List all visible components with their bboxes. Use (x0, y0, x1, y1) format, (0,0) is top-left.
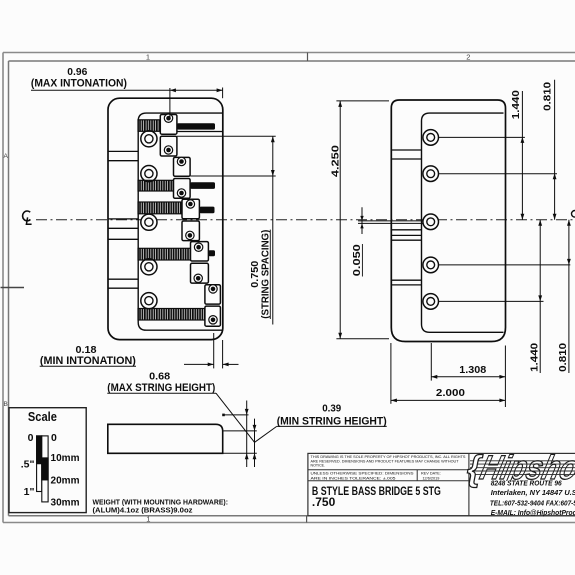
mounting hole L5 (141, 293, 157, 309)
saddle row 5 upper block (205, 285, 221, 304)
svg-text:.5": .5" (21, 458, 35, 470)
min string height level line (224, 430, 257, 432)
intonation spring row 4 (138, 248, 191, 260)
svg-text:4.250: 4.250 (330, 145, 342, 177)
svg-text:30mm: 30mm (51, 497, 80, 509)
svg-text:Scale: Scale (28, 409, 57, 424)
saddle row 2 upper block (174, 157, 191, 176)
svg-text:UNLESS OTHERWISE SPECIFIED: DI: UNLESS OTHERWISE SPECIFIED: DIMENSIONS (311, 472, 415, 476)
plate bottom extension line (224, 452, 257, 454)
max string height level line (223, 414, 249, 416)
svg-text:ARE IN INCHES TOLERANCE: ±.00: ARE IN INCHES TOLERANCE: ±.005 (311, 476, 396, 480)
bridge top view: base plate outline (108, 98, 223, 339)
saddle row 3 lower block (182, 221, 199, 241)
intonation screw row 2 (190, 182, 215, 189)
saddle row 3 upper block (182, 199, 199, 219)
svg-text:20mm: 20mm (51, 475, 80, 487)
svg-text:0.810: 0.810 (557, 343, 569, 372)
svg-text:1.440: 1.440 (510, 90, 522, 119)
rear view plate outline (391, 100, 505, 342)
svg-text:12/6/2019: 12/6/2019 (422, 476, 439, 480)
sheet outer border (3, 52, 575, 54)
mounting hole R2 (423, 166, 439, 182)
svg-text:1.308: 1.308 (459, 364, 486, 376)
dim 0.810 upper (554, 80, 556, 220)
dim 1.440 lower (539, 220, 541, 373)
saddle row 3 height screws (186, 200, 194, 208)
svg-text:0: 0 (51, 432, 57, 444)
zone tick top (307, 53, 309, 62)
inch scale bar (37, 436, 42, 492)
mounting hole L3 (141, 214, 157, 230)
mounting hole R5 (423, 294, 439, 310)
svg-text:1: 1 (146, 53, 150, 62)
svg-text:(MIN STRING HEIGHT): (MIN STRING HEIGHT) (277, 415, 387, 427)
dim 1.440 upper (521, 91, 523, 220)
hole R1 extension line (439, 136, 525, 138)
dim 0.810 lower (568, 220, 570, 373)
top view: left edge step lines (108, 150, 138, 152)
dim 1.308 (430, 343, 432, 381)
intonation screw row 1 (177, 123, 215, 129)
svg-text:E-MAIL: Info@HipshotProd: E-MAIL: Info@HipshotProd (491, 508, 575, 517)
mounting hole R1 (423, 130, 439, 146)
saddle row 4 height screws (194, 243, 202, 251)
side view base plate (108, 424, 223, 453)
svg-text:0.810: 0.810 (542, 82, 554, 111)
horizontal centerline (36, 219, 575, 221)
intonation spring row 1 (138, 120, 160, 132)
rear view inner contour (422, 113, 504, 332)
Hipshot logo (470, 450, 575, 487)
saddle row 1 upper block (160, 115, 177, 135)
svg-text:0.39: 0.39 (322, 403, 341, 415)
svg-text:NOTICE.: NOTICE. (311, 464, 326, 468)
svg-text:0.96: 0.96 (67, 66, 87, 78)
dim 4.250 (336, 100, 389, 102)
scale legend box (9, 408, 86, 513)
zone tick left (1, 287, 25, 289)
intonation screw row 4 (208, 250, 215, 256)
0.050 step lines (358, 220, 423, 222)
svg-text:(MAX STRING HEIGHT): (MAX STRING HEIGHT) (107, 382, 215, 394)
centerline symbol clipped right edge (572, 211, 575, 218)
svg-text:0: 0 (28, 432, 34, 444)
svg-text:2.000: 2.000 (436, 387, 465, 399)
svg-text:Interlaken, NY 14847 U.S: Interlaken, NY 14847 U.S (491, 488, 575, 497)
saddle row 2 height screws (177, 157, 185, 165)
svg-text:(STRING SPACING): (STRING SPACING) (260, 230, 272, 319)
saddle row 5 lower block (205, 306, 221, 326)
rear view left edge step lines (391, 149, 421, 151)
intonation screw row 3 (199, 207, 214, 214)
svg-text:(MAX INTONATION): (MAX INTONATION) (31, 78, 127, 90)
svg-text:.750: .750 (312, 495, 336, 509)
saddle row 5 height screws (209, 285, 217, 293)
mounting hole L2 (141, 166, 157, 182)
top view: raised tail section inner contour (138, 113, 223, 330)
intonation spring row 2 (138, 180, 174, 191)
top view: step line behind saddle row 1 (177, 131, 223, 133)
saddle row 1 height screws (164, 114, 172, 122)
svg-text:(ALUM)4.1oz (BRASS)9.0oz: (ALUM)4.1oz (BRASS)9.0oz (93, 505, 193, 514)
mounting hole L1 (141, 131, 157, 147)
dim 2.000 (390, 343, 392, 404)
svg-text:1": 1" (24, 486, 35, 498)
centerline symbol CL left (23, 211, 32, 224)
mounting hole R4 (423, 257, 439, 273)
dim 0.750 STRING SPACING (177, 135, 276, 137)
mounting hole L4 (141, 259, 157, 275)
saddle row 2 lower block (174, 179, 191, 199)
svg-text:2: 2 (466, 53, 470, 62)
svg-text:10mm: 10mm (51, 452, 80, 464)
svg-text:REV DATE:: REV DATE: (421, 472, 441, 476)
svg-text:8248 STATE ROUTE 96: 8248 STATE ROUTE 96 (491, 479, 563, 488)
saddle row 4 upper block (191, 242, 209, 261)
svg-text:0.050: 0.050 (351, 244, 363, 276)
saddle row 1 lower block (160, 136, 177, 156)
zone tick bottom (306, 516, 308, 523)
svg-text:0.18: 0.18 (76, 344, 97, 356)
svg-text:0.68: 0.68 (149, 371, 170, 383)
svg-text:TEL:607-532-9404 FAX:607-5: TEL:607-532-9404 FAX:607-5 (490, 498, 575, 507)
hole R5 extension line (439, 300, 544, 302)
mounting hole R3 (423, 214, 439, 230)
svg-text:B: B (4, 401, 8, 408)
hole R4 extension line (439, 264, 571, 266)
sheet inner border (9, 60, 575, 62)
dim 0.050 (361, 207, 363, 234)
svg-text:(MIN INTONATION): (MIN INTONATION) (40, 355, 136, 367)
intonation spring row 5 (138, 309, 205, 321)
saddle row 4 lower block (191, 263, 209, 283)
svg-text:ARE RESERVED. DIMENSIONS AND P: ARE RESERVED. DIMENSIONS AND PRODUCT FEA… (311, 459, 460, 463)
intonation spring row 3 (138, 202, 182, 214)
title block frame (308, 453, 575, 515)
svg-text:1.440: 1.440 (528, 343, 540, 372)
mm scale bar (42, 436, 48, 502)
hole R2 extension line (439, 173, 558, 175)
svg-text:1: 1 (146, 514, 150, 523)
svg-text:A: A (4, 153, 9, 160)
